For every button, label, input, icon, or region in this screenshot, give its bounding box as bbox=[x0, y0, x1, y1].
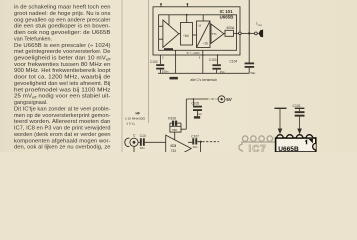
svg-text:≥ 10 MHz/50Ω: ≥ 10 MHz/50Ω bbox=[125, 117, 146, 121]
wire dashed output bbox=[202, 141, 219, 143]
svg-text:IC7: IC7 bbox=[249, 144, 267, 152]
op-amp U665B package bbox=[276, 138, 316, 152]
op-amp IC3 bbox=[166, 135, 192, 162]
ground bar inside box bbox=[164, 48, 173, 50]
svg-text:die een stuk goedkoper is en b: die een stuk goedkoper is en boven- bbox=[14, 24, 111, 30]
column divider rule bbox=[121, 0, 123, 152]
pin bump 4 bbox=[306, 135, 313, 138]
svg-text:groot nadeel: de hoge prijs. N: groot nadeel: de hoge prijs. Nu is ons bbox=[14, 11, 111, 17]
svg-text:R106: R106 bbox=[168, 116, 176, 120]
svg-text:gevoeligheid is beter dan 10 m: gevoeligheid is beter dan 10 mVeff bbox=[14, 56, 111, 62]
pin bump 3 bbox=[296, 135, 303, 138]
svg-text:C101: C101 bbox=[293, 104, 301, 108]
wire pin stub top 2 bbox=[186, 3, 188, 7]
svg-text:Dit IC'tje kan zonder al te ve: Dit IC'tje kan zonder al te veel proble- bbox=[14, 106, 111, 112]
wire output column down bbox=[248, 0, 250, 63]
svg-text:gevoeligheid dan wel iets afne: gevoeligheid dan wel iets afneemt. Bij bbox=[14, 81, 110, 87]
pin hole 1 bbox=[243, 136, 248, 141]
wire divider to programmable divider bbox=[193, 34, 197, 36]
svg-text:IC7, IC8 en P3 van de print ve: IC7, IC8 en P3 van de print verwijderd bbox=[14, 126, 111, 132]
node bus junction bbox=[186, 14, 188, 16]
wire input lower bbox=[159, 38, 163, 40]
wire pin feed left with T bar bbox=[275, 107, 287, 109]
pin circle output on inner box bbox=[239, 32, 242, 35]
figure 1 labels bbox=[150, 9, 262, 82]
capacitor C107 output series bbox=[192, 138, 194, 144]
svg-text:den, ook al lijken ze nu overb: den, ook al lijken ze nu overbodig, ze bbox=[14, 145, 110, 151]
capacitor C106 parallel bbox=[172, 121, 174, 126]
wire bias drop bbox=[185, 99, 187, 129]
svg-text:met geïntegreerde voorversterk: met geïntegreerde voorversterker. De bbox=[14, 49, 111, 55]
wire pin stub top 1 bbox=[160, 3, 162, 7]
wire resistor to output pin bbox=[234, 32, 239, 34]
op-amp U665B outer package box IC101 bbox=[153, 7, 240, 55]
svg-text:÷64: ÷64 bbox=[183, 34, 189, 38]
svg-text:C107: C107 bbox=[191, 134, 199, 138]
svg-text:door tot ca. 1200 MHz, waarbij: door tot ca. 1200 MHz, waarbij de bbox=[14, 75, 110, 81]
svg-text:IC3: IC3 bbox=[171, 144, 177, 148]
svg-text:C102: C102 bbox=[150, 60, 158, 64]
wire bus drop to amp bbox=[168, 15, 170, 25]
pin stub bottom 7 bbox=[217, 55, 219, 64]
node top junction bbox=[160, 3, 162, 5]
svg-text:10n: 10n bbox=[197, 112, 202, 116]
svg-text:C10: C10 bbox=[140, 134, 146, 138]
wire opamp input bbox=[145, 141, 166, 143]
wire 5V feed bbox=[186, 98, 206, 100]
5V supply terminal bbox=[218, 96, 225, 103]
wire input upper bbox=[159, 25, 163, 27]
left body text column bbox=[13, 5, 111, 151]
svg-text:U665B: U665B bbox=[278, 146, 299, 152]
resistor 600 ohm output bbox=[224, 32, 225, 34]
svg-text:10n: 10n bbox=[140, 146, 145, 150]
resistor R106 bbox=[170, 126, 181, 132]
pin bump 2 bbox=[287, 135, 294, 138]
node pin junctions on box edge bbox=[202, 54, 204, 56]
wire into opamp bbox=[174, 132, 176, 140]
svg-text:in de schakeling maar heeft to: in de schakeling maar heeft toch een bbox=[14, 5, 110, 11]
output buffer triangle TTL bbox=[211, 24, 224, 43]
node output junction bbox=[197, 141, 201, 143]
pin hole 3 bbox=[259, 136, 264, 141]
wires into U665B bbox=[275, 108, 305, 134]
op-amp preamplifier triangle bbox=[163, 20, 179, 48]
capacitor C103 bbox=[212, 64, 221, 66]
pin stub bottom 2 (ground) bbox=[175, 50, 177, 73]
wire output bbox=[241, 32, 254, 34]
svg-text:HF: HF bbox=[136, 111, 141, 115]
BNC input socket bbox=[130, 138, 138, 146]
pin 1 corner marker bbox=[309, 139, 313, 143]
programmable divider block ÷16/÷8 with diagonal bbox=[197, 21, 211, 48]
IC7 socket outline bbox=[239, 142, 276, 152]
svg-text:men op de voorversterkerprint: men op de voorversterkerprint gemon- bbox=[14, 113, 111, 119]
svg-text:dien ook nog gevoeliger: de U6: dien ook nog gevoeliger: de U665B bbox=[14, 30, 111, 36]
svg-text:alle C's keramisch: alle C's keramisch bbox=[191, 78, 218, 82]
svg-text:worden (denk erom dat er verde: worden (denk erom dat er verder geen bbox=[13, 132, 111, 138]
svg-text:C103: C103 bbox=[209, 58, 217, 62]
svg-text:C104: C104 bbox=[230, 59, 238, 63]
capacitor C101 feed bbox=[295, 107, 305, 109]
pin bump 1 bbox=[277, 135, 284, 138]
svg-text:IC 101: IC 101 bbox=[220, 9, 233, 14]
svg-text:10n: 10n bbox=[192, 145, 197, 149]
notch semicircle right bbox=[313, 143, 316, 149]
wire bus drop to prog divider bbox=[202, 15, 204, 21]
wire to output buffer bbox=[210, 33, 211, 35]
capacitor C104 bbox=[245, 63, 255, 65]
capacitor C102 bbox=[156, 64, 164, 66]
wire down from junction bbox=[200, 142, 202, 152]
svg-text:÷16: ÷16 bbox=[203, 42, 209, 46]
capacitor C9 input series bbox=[140, 138, 142, 146]
inner functional box bbox=[159, 15, 237, 51]
svg-text:560: 560 bbox=[172, 128, 177, 132]
svg-text:gangssignaal.: gangssignaal. bbox=[14, 100, 48, 106]
svg-text:25 mVeff nodig voor een stabie: 25 mVeff nodig voor een stabiel uit- bbox=[14, 94, 111, 100]
svg-text:De U665B is een prescaler (÷ 1: De U665B is een prescaler (÷ 1024) bbox=[14, 43, 111, 49]
svg-text:÷2: ÷2 bbox=[198, 24, 202, 28]
svg-text:TTL: TTL bbox=[212, 32, 218, 36]
U665B IC body (new) bbox=[276, 135, 316, 153]
ground symbol below rail bbox=[170, 77, 178, 80]
output terminal circle bbox=[255, 32, 258, 35]
svg-text:900 MHz. Het frekwentiebereik: 900 MHz. Het frekwentiebereik loopt bbox=[14, 68, 111, 74]
wire light rule bbox=[147, 0, 149, 123]
svg-text:oog gevallen op een andere pre: oog gevallen op een andere prescaler bbox=[14, 17, 111, 23]
pin hole 2 bbox=[251, 136, 256, 141]
ground rail bbox=[158, 72, 249, 74]
svg-text:komponenten afgehaald mogen wo: komponenten afgehaald mogen wor- bbox=[14, 138, 111, 144]
IC7 footprint on board (light) bbox=[239, 136, 276, 152]
output coax plug symbol bbox=[259, 30, 264, 38]
node output junction bbox=[248, 32, 250, 34]
svg-text:out: out bbox=[258, 24, 262, 27]
capacitor C105 decoupling bbox=[193, 99, 195, 106]
svg-text:733: 733 bbox=[171, 149, 177, 152]
svg-text:U665B: U665B bbox=[220, 15, 234, 20]
pin stub bottom 5 bbox=[202, 50, 204, 73]
ground C105 bbox=[194, 116, 200, 118]
svg-text:teerd worden. Allereerst moete: teerd worden. Allereerst moeten dan bbox=[14, 119, 111, 125]
arrow into pin 1 bbox=[278, 129, 283, 135]
svg-text:van Telefunken.: van Telefunken. bbox=[14, 36, 52, 42]
arrow into pin 3 bbox=[297, 129, 302, 135]
svg-text:15p: 15p bbox=[220, 70, 225, 74]
svg-text:"0" = ÷1024: "0" = ÷1024 bbox=[186, 51, 200, 55]
figure 2 labels bbox=[125, 97, 301, 153]
pin hole 4 bbox=[267, 136, 272, 141]
wire BNC ground bbox=[133, 146, 135, 152]
svg-text:100n: 100n bbox=[162, 70, 169, 74]
svg-text:C105: C105 bbox=[191, 102, 199, 106]
svg-text:5V: 5V bbox=[226, 97, 233, 102]
svg-text:voor frekwenties tussen 80 MHz: voor frekwenties tussen 80 MHz en bbox=[14, 62, 111, 68]
divider block ÷64 bbox=[181, 23, 193, 46]
wire amp to divider bbox=[179, 33, 181, 35]
svg-text:39p: 39p bbox=[250, 71, 255, 75]
svg-text:het proefmodel was bij 1100 MH: het proefmodel was bij 1100 MHz bbox=[14, 87, 111, 93]
pin stub bottom 3 bbox=[159, 55, 161, 64]
wire bus drop to divider bbox=[186, 15, 188, 23]
svg-text:600Ω: 600Ω bbox=[227, 26, 235, 30]
